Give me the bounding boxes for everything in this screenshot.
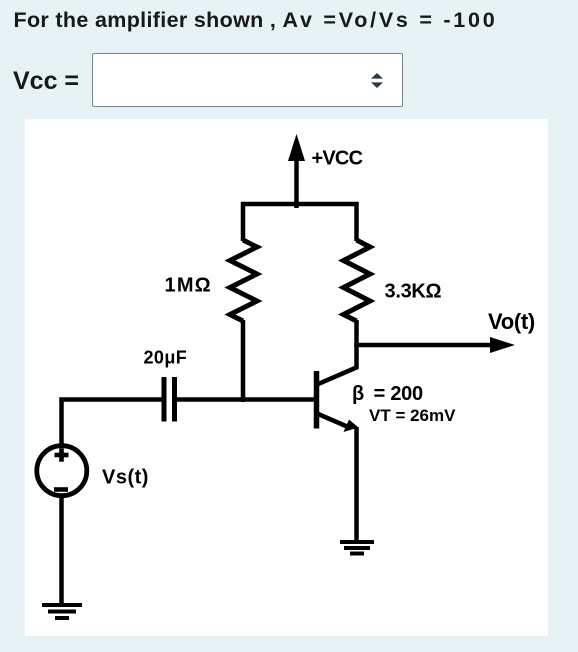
label Vcc = <box>13 67 79 96</box>
wire collector vertical <box>354 343 359 369</box>
wire R1 bottom lead <box>241 320 246 402</box>
schematic panel <box>25 119 548 636</box>
transistor Q1 base bar <box>314 371 320 429</box>
ground right (emitter) <box>340 542 374 554</box>
source minus sign <box>54 487 68 492</box>
wire base <box>174 397 314 402</box>
svg-text:β = 200: β = 200 <box>352 383 423 405</box>
VCC arrowhead <box>288 134 305 161</box>
resistor R1 1M <box>230 240 257 321</box>
svg-text:1MΩ: 1MΩ <box>165 275 212 297</box>
dropdown arrows icon <box>371 73 383 88</box>
wire output line <box>357 343 503 348</box>
svg-text:+VCC: +VCC <box>312 148 363 170</box>
title text <box>14 8 498 33</box>
transistor Q1 emitter diagonal <box>317 414 347 427</box>
capacitor C1 20uF plates <box>162 377 167 422</box>
output arrowhead <box>490 337 515 353</box>
wire source to ground <box>59 496 64 605</box>
wire input left segment <box>62 400 165 445</box>
transistor Q1 collector diagonal <box>317 367 358 385</box>
resistor R2 3.3K <box>344 240 371 321</box>
wire R2 bottom lead to output node <box>354 320 359 347</box>
wire emitter vertical <box>354 427 359 542</box>
svg-text:3.3KΩ: 3.3KΩ <box>385 281 442 303</box>
ground left <box>42 605 82 618</box>
wire VCC vertical lead <box>294 157 299 208</box>
transistor Q1 emitter arrowhead <box>344 420 359 433</box>
svg-text:VT = 26mV: VT = 26mV <box>369 406 456 425</box>
svg-text:Vs(t): Vs(t) <box>102 467 149 489</box>
source Vs circle <box>37 446 87 496</box>
dropdown select box <box>92 53 403 107</box>
svg-text:Vo(t): Vo(t) <box>488 309 535 334</box>
svg-text:20μF: 20μF <box>144 348 188 368</box>
source plus sign <box>55 448 69 461</box>
wire top bus <box>243 204 357 241</box>
